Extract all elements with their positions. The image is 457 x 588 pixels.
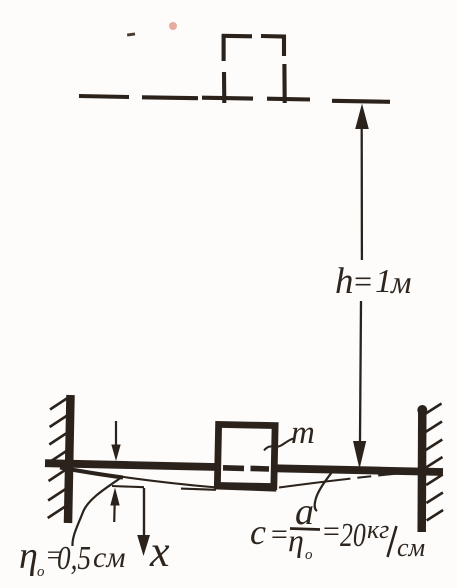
svg-text:м: м: [390, 264, 411, 300]
svg-text:1: 1: [375, 263, 392, 300]
eta0 dimension: upper arrow shaft: [115, 421, 117, 447]
x axis arrow shaft: [143, 488, 145, 538]
dashed block: left side upper dash: [222, 34, 226, 61]
dashed block (mass in initial position): top side left dash: [222, 34, 252, 39]
beam (undeflected): [45, 463, 443, 472]
dimension arrow h: lower shaft: [360, 301, 361, 441]
deflected beam curve, right of block: [279, 472, 418, 488]
dimension arrow h: upper arrowhead (points up): [355, 104, 369, 130]
dashed block: right side upper dash: [282, 35, 286, 57]
svg-text:см: см: [93, 541, 125, 574]
left wall bar: [68, 395, 71, 523]
leader from block to label m: [264, 439, 294, 451]
svg-text:o: o: [37, 564, 45, 580]
mass block m on beam: [214, 424, 277, 489]
label h = 1 м: [335, 261, 411, 302]
svg-text:h: h: [335, 261, 354, 302]
initial level dashed line: dash 1: [79, 96, 129, 97]
svg-text:c: c: [250, 512, 266, 552]
right wall bar: [417, 405, 427, 532]
hidden beam dashes inside block: [223, 468, 269, 469]
dimension tick bar (right end of level line): [332, 101, 390, 102]
deflected beam curve, left of block (thick near support): [60, 468, 123, 478]
scan speck: [127, 32, 135, 36]
leader from beam to eta0 label: [72, 477, 122, 546]
eta0 dimension: lower arrowhead (points up): [110, 488, 119, 506]
initial level dashed line: dash 3: [202, 96, 253, 101]
label m: [291, 415, 315, 451]
scan pink dot: [169, 22, 177, 30]
svg-text:=: =: [321, 515, 341, 548]
svg-text:кг: кг: [367, 515, 389, 544]
formula c = a/eta0 = 20 кг/см: [250, 491, 425, 563]
static deflection line (left, dash-dot): [112, 486, 216, 490]
eta0 dimension: lower arrow shaft: [113, 503, 116, 522]
svg-text:см: см: [397, 533, 425, 562]
deflected beam curve, left thin continuation: [120, 477, 217, 488]
svg-text:η: η: [288, 522, 304, 558]
leader from beam to formula: [315, 472, 332, 511]
svg-text:η: η: [19, 535, 38, 577]
initial level dashed line: dash 4: [267, 97, 310, 102]
svg-text:=: =: [269, 518, 289, 551]
dashed block: left side lower dash: [222, 72, 226, 103]
x axis arrowhead (points down): [137, 535, 150, 556]
dashed block: top side right dash: [261, 34, 285, 39]
label eta0 = 0,5 см: [19, 535, 125, 580]
initial level dashed line: dash 2: [142, 95, 198, 100]
svg-text:=: =: [352, 263, 374, 299]
right wall hatching: [425, 404, 443, 521]
svg-text:20: 20: [340, 516, 366, 554]
dimension arrow h: lower arrowhead (points down onto beam): [353, 441, 366, 469]
eta0 dimension: upper arrowhead (points down): [111, 445, 120, 462]
label x: [149, 527, 170, 576]
svg-text:x: x: [149, 527, 170, 576]
left wall hatching: [48, 398, 68, 518]
svg-text:m: m: [291, 415, 315, 451]
svg-text:o: o: [305, 547, 313, 563]
dashed block: right side lower dash: [282, 64, 286, 103]
svg-text:0,5: 0,5: [57, 539, 91, 577]
dimension arrow h: upper shaft: [361, 127, 363, 260]
